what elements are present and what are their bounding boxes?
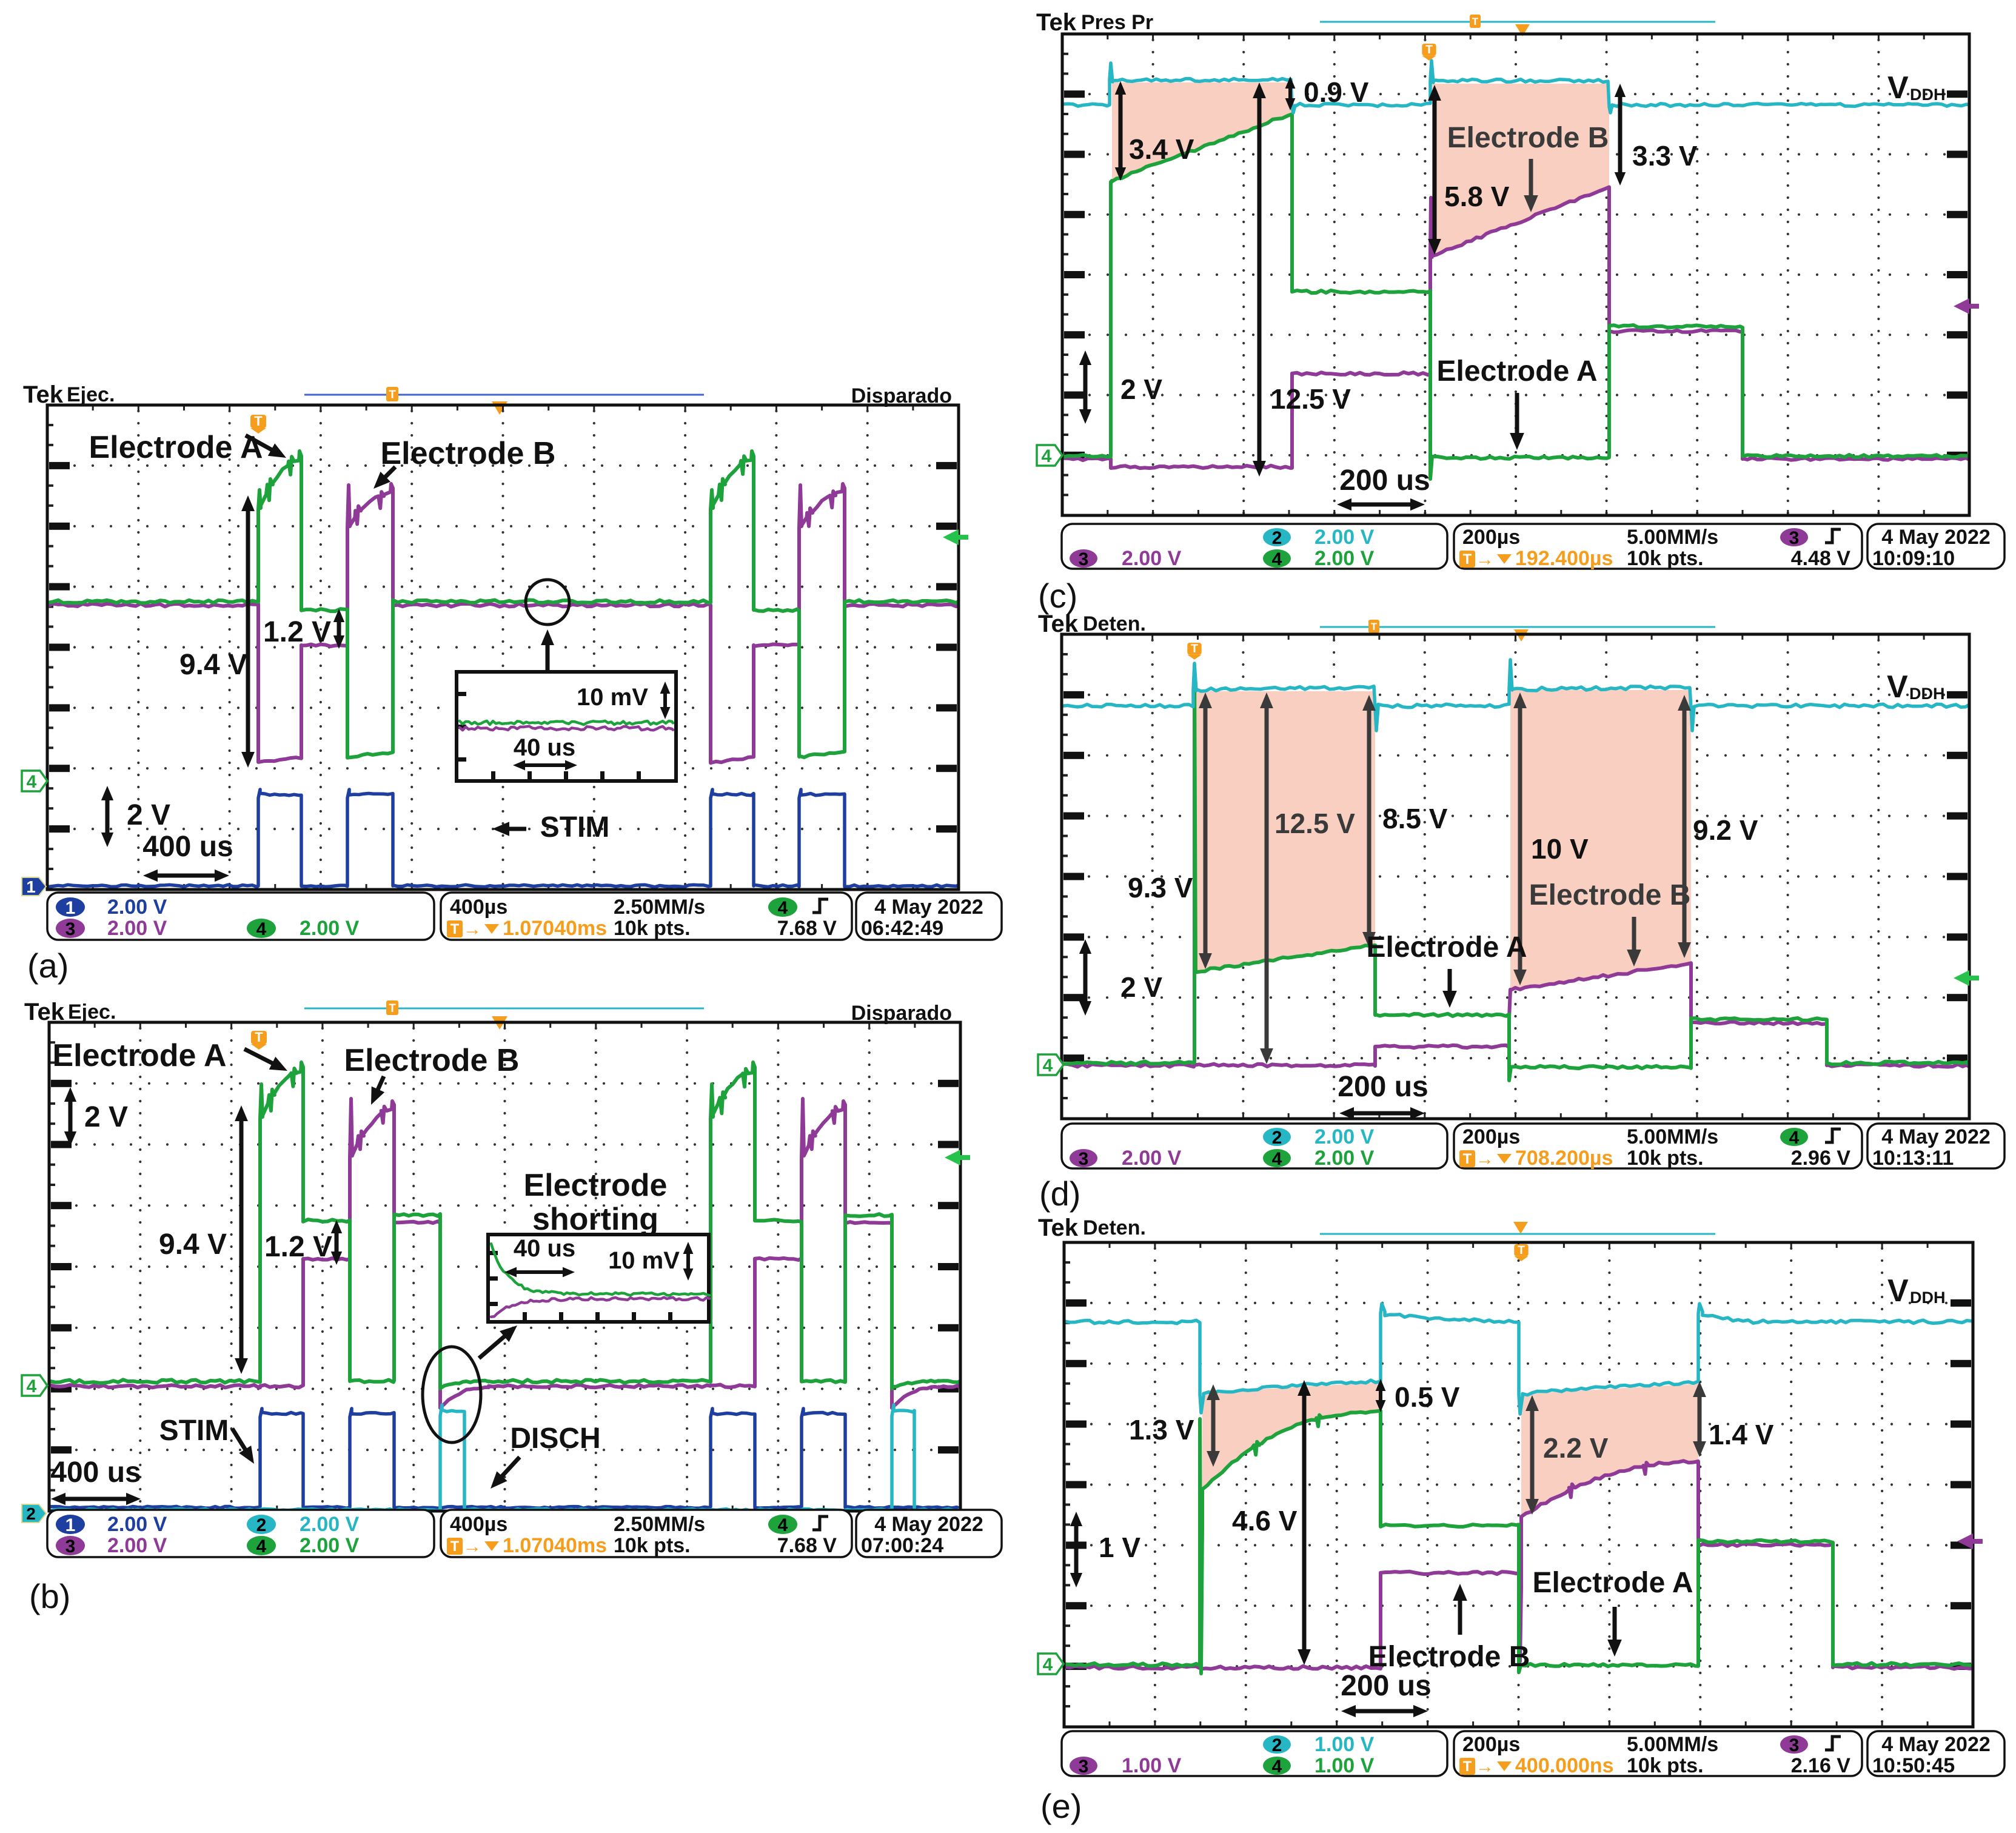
svg-text:3: 3 xyxy=(1079,1149,1089,1169)
svg-text:1.4 V: 1.4 V xyxy=(1709,1419,1774,1450)
svg-text:T: T xyxy=(1191,642,1198,655)
plot border panel b xyxy=(49,1022,960,1511)
svg-text:T: T xyxy=(1371,621,1378,632)
trigger T flag panel b xyxy=(251,1031,267,1044)
svg-text:Electrode A: Electrode A xyxy=(1533,1567,1693,1599)
svg-text:5.00MM/s: 5.00MM/s xyxy=(1627,1125,1718,1148)
svg-text:4.48 V: 4.48 V xyxy=(1791,547,1851,570)
svg-text:400µs: 400µs xyxy=(450,1513,507,1536)
svg-text:2.00 V: 2.00 V xyxy=(1122,1147,1182,1170)
svg-text:4: 4 xyxy=(27,1376,37,1396)
svg-text:2 V: 2 V xyxy=(1120,374,1162,405)
svg-text:Electrode A: Electrode A xyxy=(1437,355,1598,387)
trace ch3 purple Electrode B panel a xyxy=(49,484,957,763)
svg-text:4: 4 xyxy=(778,1515,788,1535)
svg-text:T: T xyxy=(389,1002,396,1015)
grid panel d xyxy=(1070,634,1963,1119)
svg-text:Ejec.: Ejec. xyxy=(67,383,115,406)
svg-text:2.50MM/s: 2.50MM/s xyxy=(614,1513,705,1536)
trigger level arrow right edge panel e xyxy=(1957,1533,1983,1549)
svg-text:2.00 V: 2.00 V xyxy=(300,1513,360,1536)
svg-text:1: 1 xyxy=(65,898,76,918)
channel 4 marker panel a xyxy=(22,771,47,791)
svg-text:Electrode: Electrode xyxy=(524,1168,668,1203)
svg-text:Electrode B: Electrode B xyxy=(344,1043,520,1078)
trace ch3 purple panel d xyxy=(1063,963,1968,1067)
trigger T flag panel c xyxy=(1422,44,1436,56)
svg-text:4: 4 xyxy=(1272,1757,1282,1777)
trace ch2 cyan DISCH panel b xyxy=(50,1405,959,1511)
svg-text:4 May 2022: 4 May 2022 xyxy=(874,896,983,919)
svg-text:5.00MM/s: 5.00MM/s xyxy=(1627,1733,1718,1756)
acquisition bar panel a xyxy=(304,387,704,415)
svg-text:V: V xyxy=(1887,1273,1909,1309)
plot border panel e xyxy=(1064,1242,1973,1727)
trigger level arrow right edge panel d xyxy=(1954,970,1979,986)
svg-text:200 us: 200 us xyxy=(1338,1071,1428,1103)
header panel a xyxy=(23,381,952,408)
shaded charge area 1 panel e xyxy=(1202,1382,1381,1489)
svg-text:192.400µs: 192.400µs xyxy=(1515,547,1613,570)
svg-text:1.00 V: 1.00 V xyxy=(1122,1754,1182,1777)
svg-text:10 mV: 10 mV xyxy=(577,684,648,711)
svg-text:5.00MM/s: 5.00MM/s xyxy=(1627,526,1718,549)
channel 2 marker panel b xyxy=(22,1504,46,1523)
svg-text:9.3 V: 9.3 V xyxy=(1128,872,1193,903)
plot border panel c xyxy=(1062,34,1969,515)
svg-text:200µs: 200µs xyxy=(1462,526,1520,549)
shaded charge area 2 panel d xyxy=(1510,690,1691,990)
svg-text:2: 2 xyxy=(1272,1128,1282,1148)
svg-text:9.2 V: 9.2 V xyxy=(1693,814,1758,846)
svg-text:1.3 V: 1.3 V xyxy=(1129,1414,1194,1446)
zoom inset panel a xyxy=(457,672,676,781)
svg-text:2.16 V: 2.16 V xyxy=(1791,1754,1851,1777)
svg-text:40 us: 40 us xyxy=(514,734,575,761)
trace ch4 green panel d xyxy=(1063,666,1968,1081)
svg-text:Electrode B: Electrode B xyxy=(1368,1641,1530,1673)
svg-text:10 V: 10 V xyxy=(1531,833,1589,865)
svg-text:T: T xyxy=(255,1030,263,1045)
svg-text:4.6 V: 4.6 V xyxy=(1232,1505,1298,1536)
svg-text:2.00 V: 2.00 V xyxy=(1314,1125,1375,1148)
svg-text:2.00 V: 2.00 V xyxy=(300,1534,360,1557)
svg-text:1.07040ms: 1.07040ms xyxy=(503,917,607,940)
svg-text:4: 4 xyxy=(1043,1056,1053,1076)
svg-text:12.5 V: 12.5 V xyxy=(1274,808,1355,839)
svg-text:2.96 V: 2.96 V xyxy=(1791,1147,1851,1170)
ellipse marker panel b xyxy=(423,1347,481,1443)
readout bar panel a xyxy=(47,893,434,940)
shaded charge area 2 panel c xyxy=(1432,84,1609,256)
svg-text:→: → xyxy=(1476,1149,1494,1169)
svg-text:3: 3 xyxy=(1789,528,1800,548)
svg-text:3.4 V: 3.4 V xyxy=(1129,133,1194,165)
svg-text:200µs: 200µs xyxy=(1462,1125,1520,1148)
svg-text:T: T xyxy=(1463,1151,1472,1167)
svg-text:4: 4 xyxy=(778,898,788,918)
svg-text:(e): (e) xyxy=(1040,1787,1082,1825)
trace ch3 purple Electrode B panel b xyxy=(50,1099,959,1408)
svg-text:1.07040ms: 1.07040ms xyxy=(503,1534,607,1557)
svg-text:0.9 V: 0.9 V xyxy=(1304,76,1369,108)
trigger T flag panel e xyxy=(1514,1244,1528,1256)
svg-text:7.68 V: 7.68 V xyxy=(777,1534,837,1557)
svg-text:2.00 V: 2.00 V xyxy=(1122,547,1182,570)
svg-text:40 us: 40 us xyxy=(514,1235,575,1262)
svg-text:T: T xyxy=(1425,43,1433,56)
grid panel e xyxy=(1072,1242,1966,1727)
svg-text:4: 4 xyxy=(1272,1149,1282,1169)
svg-text:Deten.: Deten. xyxy=(1083,1216,1146,1239)
svg-text:2.00 V: 2.00 V xyxy=(300,917,360,940)
svg-text:3: 3 xyxy=(65,1536,76,1557)
channel 4 marker panel b xyxy=(22,1375,47,1396)
trigger T flag panel d xyxy=(1187,643,1201,655)
channel 4 marker panel e xyxy=(1038,1654,1063,1674)
readout bar panel c xyxy=(1062,524,1447,569)
svg-text:2.00 V: 2.00 V xyxy=(107,1513,167,1536)
svg-text:5.8 V: 5.8 V xyxy=(1444,181,1510,212)
svg-text:T: T xyxy=(389,389,396,401)
svg-text:4: 4 xyxy=(27,772,37,792)
svg-text:Electrode A: Electrode A xyxy=(1367,931,1527,963)
svg-text:Electrode A: Electrode A xyxy=(89,430,263,465)
trigger T flag panel a xyxy=(250,415,266,428)
svg-text:V: V xyxy=(1887,70,1909,106)
trace ch2 cyan VDDH panel d xyxy=(1063,660,1968,731)
svg-text:DDH: DDH xyxy=(1910,1288,1946,1307)
svg-text:2.50MM/s: 2.50MM/s xyxy=(614,896,705,919)
svg-text:4: 4 xyxy=(1043,1655,1053,1675)
svg-text:4: 4 xyxy=(256,919,267,939)
svg-text:10:13:11: 10:13:11 xyxy=(1872,1147,1954,1170)
svg-text:(d): (d) xyxy=(1039,1175,1080,1213)
svg-text:1 V: 1 V xyxy=(1099,1532,1140,1563)
svg-text:3.3 V: 3.3 V xyxy=(1632,140,1698,172)
svg-text:2.00 V: 2.00 V xyxy=(107,896,167,919)
svg-text:2.00 V: 2.00 V xyxy=(107,917,167,940)
grid panel c xyxy=(1070,34,1964,515)
svg-text:2: 2 xyxy=(1272,1735,1282,1755)
svg-text:Tek: Tek xyxy=(1038,1215,1079,1241)
trace ch4 green Electrode A panel a xyxy=(49,451,957,758)
shaded charge area 1 panel d xyxy=(1196,691,1375,972)
readout bar panel d xyxy=(1062,1124,1447,1168)
circle marker panel a xyxy=(526,580,569,625)
svg-text:T: T xyxy=(254,414,263,429)
svg-text:708.200µs: 708.200µs xyxy=(1515,1147,1613,1170)
grid panel a xyxy=(55,405,949,890)
svg-text:2.00 V: 2.00 V xyxy=(1314,526,1375,549)
svg-text:4 May 2022: 4 May 2022 xyxy=(874,1513,983,1536)
svg-text:Electrode B: Electrode B xyxy=(1529,879,1691,911)
acquisition bar panel d xyxy=(1320,626,1715,628)
svg-text:2: 2 xyxy=(26,1504,36,1523)
trace ch3 purple panel e xyxy=(1065,1461,1972,1669)
trace ch1 blue STIM panel b xyxy=(50,1409,959,1508)
trace ch2 cyan VDDH panel c xyxy=(1063,61,1968,113)
svg-text:→: → xyxy=(463,919,481,939)
zoom inset panel b xyxy=(488,1235,709,1322)
trigger level arrow right edge panel c xyxy=(1954,298,1979,314)
svg-text:V: V xyxy=(1887,669,1908,705)
svg-text:DISCH: DISCH xyxy=(510,1423,600,1455)
svg-text:Pres Pr: Pres Pr xyxy=(1081,11,1153,34)
svg-text:1: 1 xyxy=(26,877,36,896)
svg-text:Tek: Tek xyxy=(1036,9,1077,36)
svg-text:06:42:49: 06:42:49 xyxy=(861,917,943,940)
svg-text:DDH: DDH xyxy=(1909,685,1945,703)
svg-text:4: 4 xyxy=(1789,1128,1800,1148)
svg-text:7.68 V: 7.68 V xyxy=(777,917,837,940)
svg-text:DDH: DDH xyxy=(1910,85,1946,104)
svg-text:10:09:10: 10:09:10 xyxy=(1872,547,1955,570)
shaded charge area 1 panel c xyxy=(1112,82,1292,181)
svg-text:200 us: 200 us xyxy=(1339,464,1430,497)
trace ch4 green panel c xyxy=(1063,114,1968,479)
svg-text:T: T xyxy=(1518,1244,1525,1257)
svg-text:4: 4 xyxy=(1272,549,1282,569)
svg-text:(b): (b) xyxy=(29,1577,70,1615)
svg-text:Ejec.: Ejec. xyxy=(68,1000,116,1024)
svg-text:→: → xyxy=(1476,549,1494,569)
svg-text:Electrode A: Electrode A xyxy=(52,1038,226,1073)
acquisition bar panel b xyxy=(304,1008,704,1010)
svg-text:10k pts.: 10k pts. xyxy=(614,1534,691,1557)
svg-text:2.2 V: 2.2 V xyxy=(1543,1432,1609,1464)
svg-text:10 mV: 10 mV xyxy=(608,1247,680,1274)
readout bar panel b xyxy=(47,1510,434,1557)
svg-text:10:50:45: 10:50:45 xyxy=(1872,1754,1955,1777)
svg-text:T: T xyxy=(450,921,460,937)
trigger level arrow right edge panel b xyxy=(945,1150,970,1165)
svg-text:Deten.: Deten. xyxy=(1083,612,1146,635)
svg-text:200 us: 200 us xyxy=(1341,1670,1431,1702)
svg-text:4 May 2022: 4 May 2022 xyxy=(1881,1125,1991,1148)
svg-text:1: 1 xyxy=(65,1515,76,1535)
svg-text:2 V: 2 V xyxy=(127,799,170,831)
channel 4 marker panel c xyxy=(1037,445,1062,466)
svg-text:T: T xyxy=(1463,551,1472,568)
svg-text:10k pts.: 10k pts. xyxy=(1627,547,1704,570)
svg-text:2.00 V: 2.00 V xyxy=(107,1534,167,1557)
svg-text:4 May 2022: 4 May 2022 xyxy=(1881,526,1991,549)
trace ch2 cyan VDDH panel e xyxy=(1065,1304,1972,1414)
svg-text:T: T xyxy=(1472,16,1479,27)
svg-text:T: T xyxy=(1463,1758,1472,1775)
svg-text:3: 3 xyxy=(1079,1757,1089,1777)
channel 4 marker panel d xyxy=(1038,1054,1063,1075)
readout bar panel e xyxy=(1062,1731,1447,1776)
svg-text:(a): (a) xyxy=(27,947,69,985)
trace ch4 green Electrode A panel b xyxy=(50,1062,959,1389)
acquisition bar panel c xyxy=(1320,21,1715,23)
svg-text:2: 2 xyxy=(1272,528,1282,548)
svg-text:2.00 V: 2.00 V xyxy=(1314,547,1375,570)
svg-text:2 V: 2 V xyxy=(1120,971,1162,1003)
svg-text:400 us: 400 us xyxy=(142,831,233,863)
trace ch1 blue STIM panel a xyxy=(49,789,957,887)
svg-text:(c): (c) xyxy=(1038,577,1077,615)
svg-text:4: 4 xyxy=(1042,446,1052,466)
svg-text:3: 3 xyxy=(1079,549,1089,569)
svg-text:8.5 V: 8.5 V xyxy=(1382,803,1448,834)
svg-text:0.5 V: 0.5 V xyxy=(1395,1381,1460,1413)
svg-text:Electrode B: Electrode B xyxy=(381,436,556,471)
shaded charge area 2 panel e xyxy=(1521,1384,1698,1516)
svg-text:1.00 V: 1.00 V xyxy=(1314,1733,1375,1756)
svg-text:STIM: STIM xyxy=(540,811,610,843)
svg-text:9.4 V: 9.4 V xyxy=(179,649,247,681)
svg-text:200µs: 200µs xyxy=(1462,1733,1520,1756)
svg-text:4: 4 xyxy=(256,1536,267,1557)
svg-text:shorting: shorting xyxy=(532,1202,658,1237)
svg-text:400µs: 400µs xyxy=(450,896,507,919)
svg-text:9.4 V: 9.4 V xyxy=(159,1228,227,1261)
svg-text:400.000ns: 400.000ns xyxy=(1515,1754,1614,1777)
trace ch3 purple panel c xyxy=(1063,187,1968,469)
svg-text:4 May 2022: 4 May 2022 xyxy=(1881,1733,1991,1756)
grid panel b xyxy=(57,1022,951,1511)
svg-text:12.5 V: 12.5 V xyxy=(1270,383,1351,415)
svg-text:3: 3 xyxy=(65,919,76,939)
svg-text:→: → xyxy=(1476,1757,1494,1777)
trigger level arrow right edge panel a xyxy=(943,529,968,545)
svg-text:2 V: 2 V xyxy=(84,1101,128,1133)
acquisition bar panel e xyxy=(1320,1233,1715,1235)
svg-text:→: → xyxy=(463,1536,481,1557)
plot border panel d xyxy=(1062,634,1969,1119)
plot border panel a xyxy=(47,405,959,890)
svg-text:10k pts.: 10k pts. xyxy=(1627,1754,1704,1777)
trace ch4 green panel e xyxy=(1065,1411,1972,1674)
svg-text:Electrode B: Electrode B xyxy=(1447,122,1609,154)
svg-text:1.2 V: 1.2 V xyxy=(263,616,331,648)
svg-text:2.00 V: 2.00 V xyxy=(1314,1147,1375,1170)
channel 1 marker panel a xyxy=(22,877,46,896)
svg-text:10k pts.: 10k pts. xyxy=(1627,1147,1704,1170)
svg-text:2: 2 xyxy=(256,1515,267,1535)
svg-text:3: 3 xyxy=(1789,1735,1800,1755)
svg-text:1.00 V: 1.00 V xyxy=(1314,1754,1375,1777)
svg-text:STIM: STIM xyxy=(159,1415,229,1447)
svg-text:400 us: 400 us xyxy=(50,1456,141,1489)
svg-text:1.2 V: 1.2 V xyxy=(264,1231,332,1263)
svg-text:T: T xyxy=(450,1538,460,1555)
svg-text:07:00:24: 07:00:24 xyxy=(861,1534,943,1557)
svg-text:10k pts.: 10k pts. xyxy=(614,917,691,940)
